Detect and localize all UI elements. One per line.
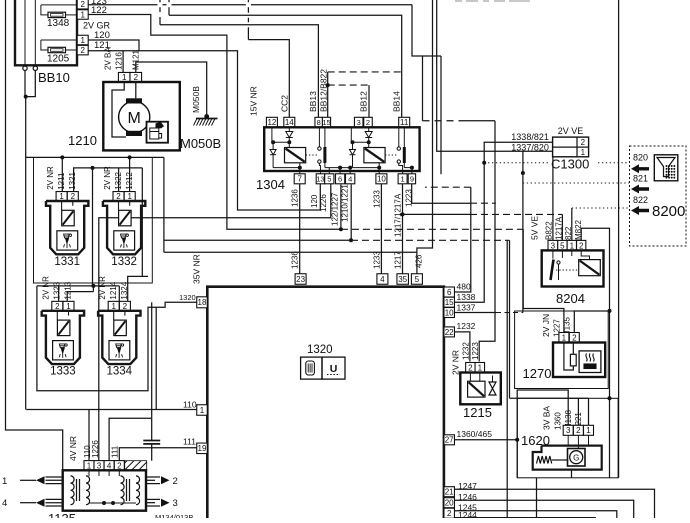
8204 pin 3 <box>548 240 558 250</box>
svg-text:15V NR: 15V NR <box>249 86 259 116</box>
injector 1333 nozzle icon <box>53 341 74 360</box>
coil 1135 box <box>63 470 146 510</box>
wire stub bottom center <box>536 478 538 518</box>
relay contact dotted link <box>306 154 318 156</box>
ECU right pin 22 <box>444 327 455 337</box>
svg-text:111: 111 <box>111 445 120 458</box>
svg-text:2V BA: 2V BA <box>104 47 113 70</box>
svg-text:1334: 1334 <box>107 366 133 378</box>
pump 1210 box <box>103 82 180 150</box>
svg-text:1270: 1270 <box>523 366 552 381</box>
svg-text:1211: 1211 <box>57 172 66 190</box>
svg-text:M: M <box>128 110 141 127</box>
relay coil <box>285 148 306 163</box>
svg-text:6: 6 <box>447 288 452 297</box>
BB10 pin 1 lower <box>77 35 88 45</box>
module 8200 dashed box <box>630 146 687 246</box>
8200 icon <box>654 155 678 181</box>
wire trunk2 1321/1322 <box>74 168 143 192</box>
arrow 820 <box>631 164 649 173</box>
8204 switch <box>552 250 554 258</box>
wire 1226 pin5 to coil 1135 <box>99 184 331 461</box>
wire 111 from coil pin2 <box>119 448 196 461</box>
arrow 821 <box>631 185 649 194</box>
ECU right pin 10 <box>444 308 455 318</box>
svg-text:5: 5 <box>560 241 565 250</box>
wire M135 to trunk <box>608 309 612 313</box>
svg-text:B822: B822 <box>545 221 554 240</box>
wire M138 <box>577 398 579 425</box>
svg-text:19: 19 <box>198 444 207 453</box>
wire command snake to ECU 18 <box>37 286 197 391</box>
wire feed trunk 1211/1212 <box>26 156 164 158</box>
svg-text:5V VE: 5V VE <box>530 216 540 240</box>
wire 1245 <box>455 511 617 518</box>
wire 1233 pin10 to ECU pin 4 <box>380 184 382 274</box>
ECU right pin 27 <box>444 435 455 445</box>
svg-text:1210/1221: 1210/1221 <box>341 184 350 222</box>
fuel icon <box>147 122 169 143</box>
BB10 pin 2 top <box>77 0 88 9</box>
wire 1227 into pin1 <box>522 308 524 310</box>
relay 1304 box <box>264 127 419 171</box>
svg-text:1338/821: 1338/821 <box>511 132 549 142</box>
svg-text:426: 426 <box>415 254 424 268</box>
relay coil to pin <box>298 166 302 170</box>
svg-text:22: 22 <box>445 328 454 337</box>
svg-text:BB13: BB13 <box>308 91 318 112</box>
relay junctions <box>287 140 291 144</box>
wire 1236 pin7 to ECU pin 23 <box>299 184 301 274</box>
svg-text:2: 2 <box>576 426 581 435</box>
ground M050B <box>204 114 209 119</box>
svg-text:1348: 1348 <box>47 18 70 29</box>
svg-text:4: 4 <box>348 175 352 184</box>
arrow 822 <box>631 206 649 215</box>
wire 122 from BB10 pin1 <box>88 15 341 230</box>
relay 1304 top pin 15 <box>322 117 330 127</box>
svg-text:1205: 1205 <box>47 54 70 65</box>
ECU right pin 15 <box>444 297 455 307</box>
svg-text:11: 11 <box>400 118 409 127</box>
svg-text:122/1227: 122/1227 <box>331 192 340 226</box>
svg-text:1338: 1338 <box>457 292 476 302</box>
wire 110 drop to coil pin1 <box>88 410 90 461</box>
svg-text:2V NR: 2V NR <box>42 276 51 300</box>
ECU right pin 2 <box>444 508 455 518</box>
ECU top pin 35 <box>397 274 409 285</box>
svg-text:CC2: CC2 <box>280 95 290 112</box>
fuse box BB10 <box>15 0 77 65</box>
svg-text:23: 23 <box>296 275 305 284</box>
svg-text:3: 3 <box>173 498 178 509</box>
svg-text:1216: 1216 <box>115 52 124 70</box>
svg-text:M050B: M050B <box>180 136 221 151</box>
wire lower feed trunk <box>91 284 95 288</box>
svg-text:M134/013B: M134/013B <box>155 513 193 518</box>
svg-text:G: G <box>573 454 579 463</box>
row 252.3 <box>164 251 417 253</box>
faint cut text top right <box>455 0 530 2</box>
wire 1223 pin9 to 1215 <box>412 184 470 203</box>
wire 1338/821 to C1300 <box>455 142 553 302</box>
injector 1333 coil <box>57 320 70 336</box>
coil 1135 pins 1 3 4 2 <box>84 461 94 471</box>
relay 1304 bottom pin 10 <box>376 174 387 184</box>
svg-text:1217A: 1217A <box>555 216 564 240</box>
1620 box <box>533 446 602 470</box>
BB10 pin 2 lower <box>77 45 88 55</box>
pump 1210 internal wires <box>112 82 126 137</box>
svg-text:1217: 1217 <box>394 251 403 269</box>
svg-text:C1300: C1300 <box>551 157 589 172</box>
wire BB14 from top <box>168 0 170 2</box>
BB10 internal wire left <box>24 0 26 66</box>
fuse 1348 <box>41 5 48 15</box>
connector C1300 box <box>553 137 589 157</box>
coil windings <box>71 476 75 505</box>
svg-text:2: 2 <box>80 46 85 55</box>
wire 1360 <box>517 390 568 478</box>
relay coil to pin <box>377 166 381 170</box>
ECU top pin 5 <box>411 274 422 285</box>
relay B pin2 wire <box>367 117 369 127</box>
wire CC2 from top <box>247 0 249 2</box>
relay 1304 bottom pin 5 <box>325 174 334 184</box>
svg-text:1337/820: 1337/820 <box>511 143 549 153</box>
injector 1333 connector pins <box>52 301 63 311</box>
wire 110 from x26 down <box>25 157 27 409</box>
injector 1334 connector pins <box>108 301 119 311</box>
relay coil <box>364 148 385 163</box>
svg-text:1236: 1236 <box>291 189 300 207</box>
svg-text:10: 10 <box>377 175 386 184</box>
svg-text:1: 1 <box>2 476 7 487</box>
8204 pin 1 <box>567 240 576 250</box>
svg-text:12: 12 <box>267 118 276 127</box>
svg-text:2: 2 <box>80 0 85 9</box>
svg-text:1360/465: 1360/465 <box>457 429 493 439</box>
fuse 1205 <box>41 40 48 50</box>
wire dashed row y120.8 to 1338 row <box>422 56 424 121</box>
svg-text:2: 2 <box>579 241 584 250</box>
injector 1332 body <box>103 201 145 254</box>
pump 1210 pin 1 <box>118 72 130 82</box>
injector 1334 nozzle icon <box>109 341 130 360</box>
svg-text:1: 1 <box>200 406 205 415</box>
svg-text:1226: 1226 <box>319 194 328 212</box>
svg-text:110: 110 <box>183 400 197 410</box>
svg-text:820: 820 <box>633 153 648 163</box>
svg-text:1331: 1331 <box>54 256 80 268</box>
svg-text:1322: 1322 <box>114 171 123 189</box>
svg-text:120: 120 <box>310 194 319 208</box>
svg-text:1214: 1214 <box>109 281 118 299</box>
svg-text:1333: 1333 <box>50 366 76 378</box>
svg-text:2V NR: 2V NR <box>98 276 107 300</box>
wire 1246 <box>455 500 634 518</box>
svg-text:1: 1 <box>478 363 483 372</box>
wire net 110 horizontal <box>26 409 196 411</box>
injector 1333 body <box>42 311 84 364</box>
relay 1304 bottom pin 6 <box>336 174 345 184</box>
ECU right pin 6 <box>444 287 455 297</box>
relay flyback diode <box>352 142 354 149</box>
wire right edge vertical <box>618 0 620 478</box>
relay junctions <box>367 140 371 144</box>
1270 pin 1 <box>559 333 569 343</box>
svg-text:5: 5 <box>415 275 420 284</box>
1620 pin stubs <box>567 435 569 445</box>
svg-text:BB12: BB12 <box>359 91 369 112</box>
wire 1210/1221 dashed east <box>351 239 510 241</box>
wire 426 riser <box>417 0 433 274</box>
svg-text:1332: 1332 <box>111 256 137 268</box>
svg-text:2: 2 <box>366 118 370 127</box>
relay contact <box>318 147 321 150</box>
relay 1304 top pin 2 <box>364 117 373 127</box>
spark outputs right <box>146 476 160 478</box>
svg-text:1232: 1232 <box>457 321 476 331</box>
svg-text:8200: 8200 <box>652 203 685 220</box>
1620 coil <box>537 456 552 464</box>
svg-text:8: 8 <box>317 118 321 127</box>
relay contact <box>397 147 400 150</box>
svg-text:1: 1 <box>570 241 575 250</box>
svg-text:M050B: M050B <box>191 86 201 113</box>
wire 121 from BB10 to fuel pump and relay <box>88 51 320 210</box>
svg-text:20: 20 <box>445 499 454 508</box>
ECU top pin 4 <box>377 274 388 285</box>
coil internal pin stubs <box>88 470 90 476</box>
svg-text:1320: 1320 <box>307 344 333 356</box>
svg-text:1232: 1232 <box>461 342 470 360</box>
svg-text:10: 10 <box>445 308 454 317</box>
svg-text:3V BA: 3V BA <box>542 406 552 430</box>
svg-text:1233: 1233 <box>373 190 382 208</box>
svg-text:4: 4 <box>380 275 385 284</box>
wire M121 to ground <box>136 62 207 116</box>
relay contact dotted link <box>385 154 397 156</box>
wire midwire commands <box>92 168 94 286</box>
wire stub right of 1304 <box>440 56 442 174</box>
relay 1304 top pin 8 <box>315 117 323 127</box>
svg-text:3: 3 <box>357 118 361 127</box>
relay 1304 bottom pin 9 <box>408 174 415 184</box>
BB10 internal wire right <box>34 0 36 66</box>
1270 internals <box>564 343 573 371</box>
ECU left pin 1 <box>197 405 208 416</box>
svg-text:1: 1 <box>586 426 591 435</box>
svg-text:2V VE: 2V VE <box>558 126 584 136</box>
ECU right pin 21 <box>444 487 455 497</box>
svg-text:BB12/B822: BB12/B822 <box>319 69 329 112</box>
svg-text:7: 7 <box>297 175 302 184</box>
svg-text:1: 1 <box>562 333 567 342</box>
svg-text:4V NR: 4V NR <box>68 436 78 461</box>
injector 1331 coil <box>62 210 74 226</box>
relay 1304 bottom pin 1 <box>398 174 407 184</box>
1270 box <box>553 343 605 378</box>
spark outputs left <box>46 476 63 478</box>
svg-text:2V NR: 2V NR <box>103 166 112 190</box>
wire left edge to coil 1135 <box>6 0 63 470</box>
1620 G motor <box>568 449 586 467</box>
wire B822 from C1300 to 8204 pin3 <box>552 157 554 241</box>
1215 valve icon <box>489 382 496 395</box>
1620 pin 1 <box>584 425 594 435</box>
junction BB10 wires <box>24 95 28 99</box>
wire 1244 <box>455 517 596 519</box>
wire pin15 BB12/B822 dashed link <box>327 72 329 117</box>
svg-text:1304: 1304 <box>256 177 285 192</box>
svg-text:1236: 1236 <box>291 251 300 269</box>
wire net 1320 vertical <box>155 307 157 409</box>
svg-text:1360: 1360 <box>554 412 563 430</box>
wire 1213 link <box>67 292 93 302</box>
pump 1210 pin 2 <box>130 72 142 82</box>
1620 pin 3 <box>563 425 573 435</box>
svg-text:1210: 1210 <box>68 133 97 148</box>
svg-text:1: 1 <box>80 10 85 19</box>
1215 box <box>460 373 501 405</box>
svg-text:4: 4 <box>2 498 7 509</box>
wire 1210/1221 drop pin4 <box>350 185 352 241</box>
svg-text:14: 14 <box>285 118 294 127</box>
1270 heater icon <box>579 351 601 373</box>
1215 coil <box>468 381 485 397</box>
wire 1337/820 to C1300 <box>455 312 497 314</box>
relay diode top <box>368 127 370 131</box>
svg-text:35V NR: 35V NR <box>192 254 202 284</box>
svg-text:1223: 1223 <box>471 342 480 360</box>
ECU left pin 18 <box>197 297 208 308</box>
dot 821 dotted row <box>521 171 525 175</box>
svg-text:3: 3 <box>566 426 571 435</box>
svg-text:822: 822 <box>633 195 648 205</box>
wire 1247 <box>455 489 655 518</box>
svg-text:1: 1 <box>122 73 127 82</box>
wire trunk down east side <box>163 157 165 252</box>
injector 1334 body <box>98 311 140 364</box>
8204 coil <box>579 260 601 276</box>
relay 1304 bottom pin 7 <box>294 174 305 184</box>
svg-text:1323: 1323 <box>53 281 62 299</box>
relay 1304 top pin 12 <box>266 117 277 127</box>
1620 pin 2 <box>573 425 583 435</box>
svg-text:2: 2 <box>468 363 473 372</box>
svg-text:1212: 1212 <box>125 171 134 189</box>
svg-text:1233: 1233 <box>373 251 382 269</box>
svg-text:1215: 1215 <box>463 405 492 420</box>
wire 1337/820 riser from top <box>437 0 553 151</box>
wire 1217A to 8204 <box>403 213 471 215</box>
svg-text:1: 1 <box>80 36 85 45</box>
wire 1217/1217A pin1 <box>402 184 404 274</box>
injector 1332 nozzle icon <box>114 231 135 250</box>
relay bottom wires <box>319 163 320 175</box>
relay diode top <box>288 127 290 131</box>
1215 pin 1 <box>475 363 485 373</box>
relay flyback diode <box>272 142 274 149</box>
svg-text:U: U <box>330 363 338 375</box>
wire 1232 to 1215 <box>455 332 470 362</box>
wire 1216 branch to pump <box>122 51 124 73</box>
svg-text:2V NR: 2V NR <box>46 166 55 190</box>
svg-text:1321: 1321 <box>68 171 77 189</box>
wire 122/1227 drop pin6 <box>340 185 342 230</box>
wire pin4 capacitor link <box>109 418 152 460</box>
wire M135 <box>574 311 609 333</box>
svg-text:BB14: BB14 <box>392 91 402 112</box>
8204 dotted link <box>556 269 579 271</box>
wire 120 from BB10 <box>88 40 139 51</box>
dot 820 dotted row <box>482 161 486 165</box>
ECU top pin 23 <box>295 274 306 285</box>
svg-text:9: 9 <box>410 175 414 184</box>
injector 1334 coil <box>114 320 127 336</box>
svg-text:21: 21 <box>445 488 454 497</box>
ECU left pin 19 <box>197 443 208 454</box>
injector 1331 body <box>46 201 88 254</box>
svg-text:BB10: BB10 <box>38 70 70 85</box>
wire trunk2 east drop <box>141 168 143 277</box>
enclosure box injectors 1331 1332 <box>34 157 153 283</box>
svg-text:2: 2 <box>581 138 586 147</box>
wire 822 dotted to 8200 <box>571 208 573 240</box>
svg-text:821: 821 <box>633 174 648 184</box>
svg-text:1: 1 <box>401 175 405 184</box>
svg-text:2V GR: 2V GR <box>83 21 111 31</box>
wire 1324 riser <box>128 276 148 301</box>
injector 1331 nozzle icon <box>57 231 78 250</box>
enclosure box around 1620 <box>517 398 618 478</box>
svg-text:480: 480 <box>457 282 471 292</box>
svg-text:1226: 1226 <box>91 440 100 458</box>
injector 1332 coil <box>119 210 132 226</box>
wire 123 from BB10 pin2 <box>88 4 157 6</box>
svg-text:2: 2 <box>134 73 139 82</box>
injector 1331 connector pins <box>56 192 67 202</box>
8204 pin 2 <box>577 240 586 250</box>
svg-text:35: 35 <box>398 275 407 284</box>
svg-text:8204: 8204 <box>556 291 585 306</box>
svg-text:1213: 1213 <box>64 281 73 299</box>
svg-text:27: 27 <box>445 436 454 445</box>
svg-text:15: 15 <box>322 118 330 127</box>
relay 1304 bottom pin 13 <box>316 174 325 184</box>
pump motor M <box>126 98 142 103</box>
svg-text:5: 5 <box>327 175 331 184</box>
relay 1304 top pin 3 <box>354 117 363 127</box>
enclosure box around 1270 <box>515 311 609 389</box>
capacitor <box>151 418 153 440</box>
8204 box <box>542 250 604 286</box>
relay 1304 top pin 14 <box>284 117 295 127</box>
1270 pin 2 <box>569 333 579 343</box>
svg-text:3: 3 <box>551 241 556 250</box>
wire M822 ground trunk <box>581 228 609 477</box>
wire 480 to 820 dot <box>455 187 471 292</box>
svg-text:2: 2 <box>173 476 178 487</box>
ECU right pin 20 <box>444 498 455 508</box>
injector 1332 connector pins <box>113 192 124 202</box>
svg-text:1135: 1135 <box>48 511 76 518</box>
BB10 output terminal circles <box>23 66 27 70</box>
svg-text:13: 13 <box>316 175 324 184</box>
relay 1304 bottom pin 4 <box>346 174 355 184</box>
wire 1221 <box>588 398 590 425</box>
